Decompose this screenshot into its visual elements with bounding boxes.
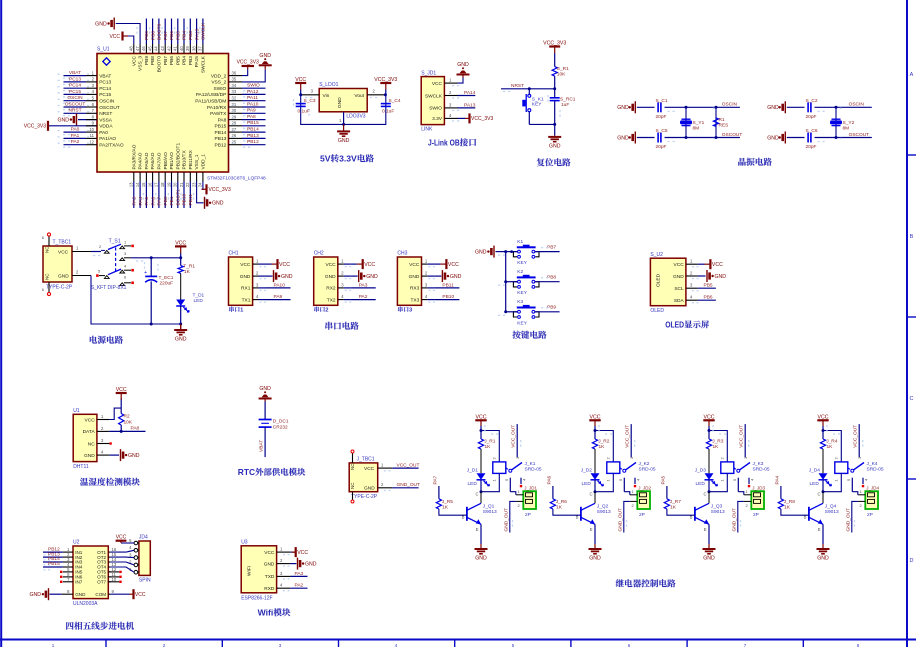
svg-text:VCC_3V3: VCC_3V3 xyxy=(24,124,46,130)
svg-text:VCC_OUT: VCC_OUT xyxy=(511,425,517,448)
svg-text:PA12: PA12 xyxy=(247,89,259,95)
svg-text:VCC: VCC xyxy=(297,550,308,556)
svg-text:SWIO: SWIO xyxy=(214,86,227,92)
svg-text:PA12/USB/DP: PA12/USB/DP xyxy=(196,92,227,98)
svg-text:2: 2 xyxy=(92,77,95,82)
svg-text:K1: K1 xyxy=(517,239,523,245)
svg-text:OLED: OLED xyxy=(656,273,662,287)
svg-text:PB9: PB9 xyxy=(547,305,556,311)
svg-text:5: 5 xyxy=(846,478,851,481)
svg-text:1: 1 xyxy=(860,489,863,494)
svg-text:VCC: VCC xyxy=(279,262,290,268)
svg-text:48: 48 xyxy=(129,46,134,51)
svg-text:TX1: TX1 xyxy=(242,297,251,303)
svg-text:2: 2 xyxy=(833,457,838,460)
svg-text:PB0: PB0 xyxy=(163,196,169,205)
svg-text:T_R1: T_R1 xyxy=(183,264,195,270)
svg-text:PA2: PA2 xyxy=(295,583,304,589)
svg-text:PA5: PA5 xyxy=(144,196,150,205)
svg-text:4: 4 xyxy=(690,295,693,300)
svg-text:S_C5: S_C5 xyxy=(656,128,668,134)
svg-text:NC: NC xyxy=(45,273,50,280)
svg-text:PA9/TX: PA9/TX xyxy=(210,111,227,117)
svg-text:2: 2 xyxy=(163,643,166,647)
svg-text:PC13: PC13 xyxy=(99,80,111,86)
svg-text:T_S1: T_S1 xyxy=(109,239,121,245)
svg-text:J_Q2: J_Q2 xyxy=(597,504,609,510)
svg-text:BOOT1: BOOT1 xyxy=(176,189,182,206)
svg-text:3: 3 xyxy=(124,251,127,256)
svg-text:VCC_OUT: VCC_OUT xyxy=(853,425,859,448)
svg-text:PB4: PB4 xyxy=(182,56,188,65)
svg-text:35: 35 xyxy=(232,77,237,82)
svg-text:2: 2 xyxy=(325,308,328,314)
svg-text:ESP8266-12F: ESP8266-12F xyxy=(241,596,272,602)
svg-text:5V: 5V xyxy=(320,154,331,164)
svg-text:VSSA: VSSA xyxy=(99,117,113,123)
svg-text:VDD_2: VDD_2 xyxy=(211,73,227,79)
svg-text:15: 15 xyxy=(141,182,146,187)
svg-text:PB5: PB5 xyxy=(704,283,713,289)
svg-text:S_JD1: S_JD1 xyxy=(421,70,436,76)
svg-text:43: 43 xyxy=(160,46,165,51)
svg-text:8: 8 xyxy=(67,589,70,594)
svg-text:OLED: OLED xyxy=(650,308,664,314)
svg-text:VCC: VCC xyxy=(264,550,275,556)
svg-text:SPIN: SPIN xyxy=(139,578,151,584)
svg-text:Vin: Vin xyxy=(323,93,330,99)
svg-text:PB4: PB4 xyxy=(182,31,188,40)
svg-text:1: 1 xyxy=(256,259,259,264)
svg-text:VCC: VCC xyxy=(131,55,137,66)
svg-text:6: 6 xyxy=(124,275,127,280)
svg-text:17: 17 xyxy=(154,182,159,187)
svg-text:PA3: PA3 xyxy=(132,196,138,205)
svg-text:T_EC1: T_EC1 xyxy=(159,275,174,281)
svg-text:S9013: S9013 xyxy=(597,509,611,515)
svg-text:PB11: PB11 xyxy=(442,282,454,288)
svg-text:3: 3 xyxy=(256,282,259,287)
svg-text:44: 44 xyxy=(154,46,159,51)
svg-text:4: 4 xyxy=(395,643,398,647)
svg-text:PA10: PA10 xyxy=(274,282,286,288)
svg-text:VCC: VCC xyxy=(674,262,685,268)
svg-text:1: 1 xyxy=(518,489,521,494)
svg-text:VCC: VCC xyxy=(325,262,336,268)
svg-text:4: 4 xyxy=(864,478,869,481)
svg-text:1uF: 1uF xyxy=(561,102,569,108)
svg-text:SRD-05: SRD-05 xyxy=(525,466,542,472)
svg-text:Wifi: Wifi xyxy=(258,608,274,618)
svg-text:22: 22 xyxy=(185,182,190,187)
svg-text:S_C2: S_C2 xyxy=(806,98,818,104)
svg-text:GND_OUT: GND_OUT xyxy=(732,508,738,532)
svg-text:PA11: PA11 xyxy=(247,95,258,101)
svg-text:SRD-05: SRD-05 xyxy=(639,466,656,472)
svg-text:1: 1 xyxy=(280,547,283,552)
svg-text:SDA: SDA xyxy=(674,298,685,304)
svg-text:PB15: PB15 xyxy=(247,120,259,126)
svg-text:PB6: PB6 xyxy=(169,31,175,40)
svg-text:D: D xyxy=(910,558,914,564)
svg-text:23: 23 xyxy=(191,182,196,187)
svg-text:2: 2 xyxy=(99,244,102,249)
svg-text:2: 2 xyxy=(491,457,496,460)
svg-text:4: 4 xyxy=(256,294,259,299)
svg-text:PA7/AO: PA7/AO xyxy=(157,152,163,169)
svg-text:VCC_OUT: VCC_OUT xyxy=(625,425,631,448)
svg-text:PB15: PB15 xyxy=(48,561,60,567)
svg-text:PA14: PA14 xyxy=(464,90,476,96)
svg-text:45: 45 xyxy=(147,46,152,51)
svg-text:Vout: Vout xyxy=(354,93,364,99)
svg-text:SWCLK: SWCLK xyxy=(425,93,443,99)
svg-text:PB13: PB13 xyxy=(215,136,227,142)
svg-text:2P: 2P xyxy=(639,512,645,518)
svg-text:2P: 2P xyxy=(753,512,759,518)
svg-text:R2: R2 xyxy=(124,413,130,419)
svg-text:E: E xyxy=(818,527,821,532)
svg-text:PB8: PB8 xyxy=(150,56,156,65)
svg-text:S9013: S9013 xyxy=(483,509,497,515)
svg-text:PB7: PB7 xyxy=(163,56,169,65)
svg-text:LINK: LINK xyxy=(421,127,433,133)
svg-text:PB15: PB15 xyxy=(215,124,227,130)
svg-text:WIFI: WIFI xyxy=(247,566,253,576)
svg-text:PA7: PA7 xyxy=(157,196,163,205)
svg-text:2: 2 xyxy=(341,271,344,276)
svg-text:SCL: SCL xyxy=(674,286,684,292)
svg-text:1: 1 xyxy=(719,479,724,482)
svg-text:PC13: PC13 xyxy=(69,76,81,82)
svg-text:PB5: PB5 xyxy=(176,31,182,40)
svg-text:RTC: RTC xyxy=(238,467,255,477)
svg-text:PC14: PC14 xyxy=(69,83,81,89)
svg-text:PA6: PA6 xyxy=(150,196,156,205)
svg-text:J_JD3: J_JD3 xyxy=(752,485,765,490)
svg-text:VCC: VCC xyxy=(109,34,120,40)
svg-text:PB7: PB7 xyxy=(547,244,556,250)
svg-text:PA2: PA2 xyxy=(359,294,368,300)
svg-text:8M: 8M xyxy=(693,126,700,132)
svg-text:6: 6 xyxy=(42,235,45,240)
svg-text:2: 2 xyxy=(605,457,610,460)
svg-text:S_C3: S_C3 xyxy=(304,98,316,104)
svg-text:1K: 1K xyxy=(556,504,563,510)
svg-text:VCC_OUT: VCC_OUT xyxy=(397,462,420,468)
svg-text:J_K2: J_K2 xyxy=(639,461,650,467)
svg-text:OT7: OT7 xyxy=(97,580,106,585)
svg-text:12: 12 xyxy=(89,140,94,145)
svg-text:GND: GND xyxy=(475,250,487,256)
svg-text:1: 1 xyxy=(833,479,838,482)
svg-text:KEY: KEY xyxy=(532,102,542,108)
svg-text:C: C xyxy=(589,492,592,497)
svg-text:GND: GND xyxy=(325,274,336,280)
svg-text:0.1uF: 0.1uF xyxy=(382,109,394,115)
svg-text:3: 3 xyxy=(311,89,314,94)
svg-text:5: 5 xyxy=(732,478,737,481)
svg-text:2: 2 xyxy=(101,426,104,431)
svg-text:KEY: KEY xyxy=(517,320,527,326)
svg-text:BOOT0: BOOT0 xyxy=(157,23,163,40)
svg-text:PB11: PB11 xyxy=(188,194,194,206)
svg-text:E: E xyxy=(704,527,707,532)
svg-text:20pF: 20pF xyxy=(656,114,667,120)
svg-text:GND_OUT: GND_OUT xyxy=(618,508,624,532)
svg-text:DHT11: DHT11 xyxy=(73,464,89,470)
svg-text:PA11/USB/DM: PA11/USB/DM xyxy=(195,99,226,105)
svg-text:PB8: PB8 xyxy=(547,275,556,281)
svg-text:BOOT0: BOOT0 xyxy=(157,56,163,73)
svg-text:NRST: NRST xyxy=(99,111,112,117)
svg-text:0.1uF: 0.1uF xyxy=(298,109,310,115)
svg-text:VBAT: VBAT xyxy=(69,70,81,76)
svg-text:2: 2 xyxy=(256,271,259,276)
svg-text:C: C xyxy=(910,396,914,402)
svg-text:GND: GND xyxy=(673,274,684,280)
svg-text:+: + xyxy=(144,270,147,276)
svg-text:4: 4 xyxy=(425,294,428,299)
svg-text:14: 14 xyxy=(135,182,140,187)
svg-text:GND: GND xyxy=(364,486,375,492)
svg-text:S_C4: S_C4 xyxy=(389,98,401,104)
svg-text:J_JD2: J_JD2 xyxy=(638,485,651,490)
svg-text:11: 11 xyxy=(90,133,95,138)
svg-text:GND: GND xyxy=(617,105,629,111)
svg-text:3: 3 xyxy=(129,552,132,557)
svg-text:J_TBC1: J_TBC1 xyxy=(357,456,375,462)
svg-text:VDDA: VDDA xyxy=(99,124,113,130)
svg-text:PA5: PA5 xyxy=(661,475,667,484)
svg-text:10: 10 xyxy=(89,127,94,132)
svg-text:DATA: DATA xyxy=(83,429,96,435)
svg-text:VCC_3V3: VCC_3V3 xyxy=(543,40,566,46)
svg-text:TYPE-C-2P: TYPE-C-2P xyxy=(351,494,378,500)
svg-text:1K: 1K xyxy=(599,444,606,450)
svg-text:RES: RES xyxy=(719,123,729,129)
svg-text:GND: GND xyxy=(457,62,469,68)
svg-text:JD4: JD4 xyxy=(139,535,148,541)
svg-text:OSCIN: OSCIN xyxy=(67,95,83,101)
svg-text:NC: NC xyxy=(350,463,355,470)
svg-text:J_JD1: J_JD1 xyxy=(524,485,537,490)
svg-text:PB5: PB5 xyxy=(175,56,181,65)
svg-text:19: 19 xyxy=(166,182,171,187)
svg-text:S9013: S9013 xyxy=(825,509,839,515)
svg-text:2: 2 xyxy=(860,503,863,508)
svg-text:1K: 1K xyxy=(784,504,791,510)
svg-text:PA8: PA8 xyxy=(131,426,140,432)
svg-text:J_R5: J_R5 xyxy=(442,499,454,505)
svg-text:2: 2 xyxy=(449,90,452,95)
svg-text:PB3: PB3 xyxy=(188,31,194,40)
svg-text:S_C1: S_C1 xyxy=(656,98,668,104)
svg-text:1K: 1K xyxy=(827,444,834,450)
svg-text:OSCOUT: OSCOUT xyxy=(722,132,743,138)
svg-text:NRST: NRST xyxy=(511,83,524,89)
svg-text:3: 3 xyxy=(280,571,283,576)
svg-text:U2: U2 xyxy=(73,540,80,546)
svg-text:J_R8: J_R8 xyxy=(784,499,796,505)
svg-text:J_R7: J_R7 xyxy=(670,499,682,505)
svg-text:GND: GND xyxy=(366,274,378,280)
svg-text:S9013: S9013 xyxy=(711,509,725,515)
svg-text:PA2: PA2 xyxy=(71,139,80,145)
svg-text:20pF: 20pF xyxy=(806,114,817,120)
svg-text:4: 4 xyxy=(92,89,95,94)
svg-text:S_C6: S_C6 xyxy=(806,128,818,134)
svg-text:PA7: PA7 xyxy=(433,475,439,484)
svg-text:PC15: PC15 xyxy=(99,92,111,98)
svg-text:PB8: PB8 xyxy=(150,31,156,40)
svg-text:VCC: VCC xyxy=(295,77,306,83)
svg-text:PB3: PB3 xyxy=(188,56,194,65)
svg-text:PA6: PA6 xyxy=(547,475,553,484)
svg-text:21: 21 xyxy=(179,182,184,187)
svg-text:VCC_3V3: VCC_3V3 xyxy=(471,116,493,122)
svg-text:GND: GND xyxy=(703,556,715,562)
svg-text:3.3V: 3.3V xyxy=(339,154,357,164)
svg-text:NC: NC xyxy=(45,246,50,253)
svg-text:PA0: PA0 xyxy=(71,127,80,133)
svg-text:6: 6 xyxy=(628,643,631,647)
svg-text:9: 9 xyxy=(92,121,95,126)
svg-text:PA15: PA15 xyxy=(194,28,200,40)
svg-text:SWCLK: SWCLK xyxy=(201,55,207,73)
svg-text:PA5/AO: PA5/AO xyxy=(144,152,150,169)
svg-text:E: E xyxy=(590,527,593,532)
svg-text:TYPE-C-2P: TYPE-C-2P xyxy=(46,285,73,291)
svg-text:1: 1 xyxy=(339,118,342,123)
svg-text:T_D1: T_D1 xyxy=(193,292,205,298)
svg-text:VCC: VCC xyxy=(116,387,127,393)
svg-text:OSCIN: OSCIN xyxy=(722,102,738,108)
svg-text:S_Y1: S_Y1 xyxy=(693,120,705,126)
svg-text:42: 42 xyxy=(166,46,171,51)
svg-text:LDO3V3: LDO3V3 xyxy=(346,114,365,120)
svg-text:20pF: 20pF xyxy=(806,144,817,150)
svg-text:CH1: CH1 xyxy=(229,251,239,257)
svg-text:OLED: OLED xyxy=(665,320,684,330)
svg-text:GND: GND xyxy=(281,274,293,280)
svg-text:PA4: PA4 xyxy=(775,475,781,484)
svg-text:1K: 1K xyxy=(670,504,677,510)
svg-text:J_D1: J_D1 xyxy=(467,468,479,474)
svg-text:6: 6 xyxy=(92,102,95,107)
svg-text:PA10/RX: PA10/RX xyxy=(207,105,227,111)
svg-text:VCC: VCC xyxy=(85,417,96,423)
svg-text:8: 8 xyxy=(857,643,860,647)
svg-text:PA3: PA3 xyxy=(359,282,368,288)
svg-text:1: 1 xyxy=(449,78,452,83)
svg-text:GND_OUT: GND_OUT xyxy=(846,508,852,532)
svg-text:U1: U1 xyxy=(73,408,80,414)
svg-text:2P: 2P xyxy=(867,512,873,518)
svg-text:2: 2 xyxy=(690,270,693,275)
svg-text:2: 2 xyxy=(632,503,635,508)
svg-text:VCC_3V3: VCC_3V3 xyxy=(209,187,231,193)
svg-text:4: 4 xyxy=(750,478,755,481)
svg-text:VCC_OUT: VCC_OUT xyxy=(739,425,745,448)
svg-text:S_K1: S_K1 xyxy=(532,96,544,102)
svg-text:S_Y2: S_Y2 xyxy=(843,120,855,126)
svg-text:PB10: PB10 xyxy=(182,193,188,205)
svg-text:GND: GND xyxy=(75,592,86,597)
svg-text:PB10/TX: PB10/TX xyxy=(182,150,188,170)
svg-text:1: 1 xyxy=(52,643,55,647)
svg-text:GND: GND xyxy=(767,105,779,111)
svg-text:4: 4 xyxy=(124,264,127,269)
svg-text:2: 2 xyxy=(425,271,428,276)
svg-text:41: 41 xyxy=(173,46,178,51)
svg-text:PB6: PB6 xyxy=(169,56,175,65)
svg-text:7: 7 xyxy=(744,643,747,647)
svg-text:2: 2 xyxy=(76,269,79,274)
svg-text:GND: GND xyxy=(240,274,251,280)
svg-text:4: 4 xyxy=(341,294,344,299)
svg-text:GND: GND xyxy=(175,337,187,343)
svg-text:LED: LED xyxy=(194,298,204,304)
svg-text:PB7: PB7 xyxy=(163,31,169,40)
svg-text:VBAT: VBAT xyxy=(259,440,265,452)
svg-text:RXD: RXD xyxy=(264,586,275,592)
svg-text:1K: 1K xyxy=(713,444,720,450)
svg-text:GND_OUT: GND_OUT xyxy=(504,508,510,532)
svg-text:PA6/AO: PA6/AO xyxy=(150,152,156,169)
svg-text:4: 4 xyxy=(101,450,104,455)
svg-text:PB12: PB12 xyxy=(215,143,227,149)
svg-text:5: 5 xyxy=(618,478,623,481)
svg-text:PA10: PA10 xyxy=(247,101,259,107)
svg-text:PB6: PB6 xyxy=(704,295,713,301)
svg-text:LED: LED xyxy=(582,481,592,487)
svg-text:PA0: PA0 xyxy=(99,130,108,136)
svg-text:PA13: PA13 xyxy=(464,102,476,108)
svg-text:GND: GND xyxy=(715,274,727,280)
svg-text:GND: GND xyxy=(475,556,487,562)
svg-text:1: 1 xyxy=(381,462,384,467)
svg-text:VCC: VCC xyxy=(364,466,375,472)
svg-text:SWIO: SWIO xyxy=(247,83,260,89)
svg-text:GND: GND xyxy=(337,97,343,108)
svg-text:J_K1: J_K1 xyxy=(525,461,536,467)
svg-text:GND: GND xyxy=(259,53,271,59)
svg-text:J_K4: J_K4 xyxy=(867,461,878,467)
svg-text:GND: GND xyxy=(95,21,107,27)
svg-text:J_D4: J_D4 xyxy=(809,468,821,474)
svg-text:1: 1 xyxy=(690,259,693,264)
svg-text:PA2/TX/AO: PA2/TX/AO xyxy=(99,143,124,149)
svg-text:GND: GND xyxy=(549,143,561,149)
svg-text:J_R2: J_R2 xyxy=(598,438,610,444)
svg-text:2P: 2P xyxy=(525,512,531,518)
svg-text:4: 4 xyxy=(129,545,132,550)
svg-text:VBAT: VBAT xyxy=(99,73,111,79)
svg-text:PB9: PB9 xyxy=(144,31,150,40)
svg-text:20pF: 20pF xyxy=(656,144,667,150)
svg-text:PB12: PB12 xyxy=(247,139,259,145)
svg-text:46: 46 xyxy=(141,46,146,51)
svg-text:GND: GND xyxy=(338,138,350,144)
svg-text:10K: 10K xyxy=(124,419,133,425)
svg-text:18: 18 xyxy=(160,182,165,187)
svg-text:S_RC1: S_RC1 xyxy=(560,97,576,103)
svg-text:TX3: TX3 xyxy=(410,297,419,303)
svg-text:PB14: PB14 xyxy=(247,127,259,133)
svg-text:39: 39 xyxy=(185,46,190,51)
svg-text:S_KFT DIP-8X1: S_KFT DIP-8X1 xyxy=(91,285,127,291)
